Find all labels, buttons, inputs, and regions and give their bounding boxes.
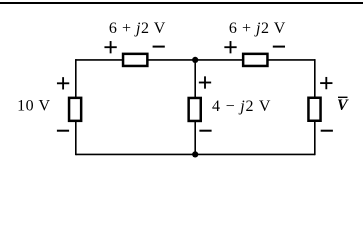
- polarity - of top-left element: [153, 46, 165, 48]
- polarity + of middle element: [199, 76, 211, 88]
- polarity + of top-right element: [224, 41, 236, 53]
- node: bottom junction dot: [192, 151, 198, 157]
- svg-text:6 + j2 V: 6 + j2 V: [229, 20, 286, 37]
- polarity + of top-left element: [104, 41, 116, 53]
- polarity + of 10 V source: [57, 77, 69, 89]
- wire: right branch: [314, 59, 316, 155]
- label V-bar (right): [337, 97, 349, 114]
- wire: top right segment: [195, 59, 315, 61]
- wire: middle branch: [194, 60, 196, 154]
- element 6+j2 V (top-left box): [123, 54, 147, 66]
- element 6+j2 V (top-right box): [243, 54, 267, 66]
- svg-text:6 + j2 V: 6 + j2 V: [109, 20, 166, 37]
- polarity + of right element: [320, 77, 332, 89]
- wire: left branch: [75, 59, 77, 155]
- polarity - of right element: [321, 130, 333, 132]
- wire: bottom right segment: [195, 153, 315, 155]
- polarity - of 10 V source: [57, 130, 69, 132]
- polarity - of top-right element: [273, 46, 285, 48]
- element 4-j2 V (middle box): [189, 98, 201, 121]
- node: top junction dot: [192, 57, 198, 63]
- source V1 10 V (left box): [69, 98, 81, 121]
- element V-bar (right box): [308, 98, 320, 121]
- wire: bottom left segment: [76, 153, 195, 155]
- polarity - of middle element: [199, 130, 211, 132]
- svg-text:10 V: 10 V: [17, 98, 50, 115]
- wire: top left segment: [76, 59, 195, 61]
- svg-text:V: V: [337, 97, 349, 114]
- svg-text:4 − j2 V: 4 − j2 V: [212, 98, 271, 115]
